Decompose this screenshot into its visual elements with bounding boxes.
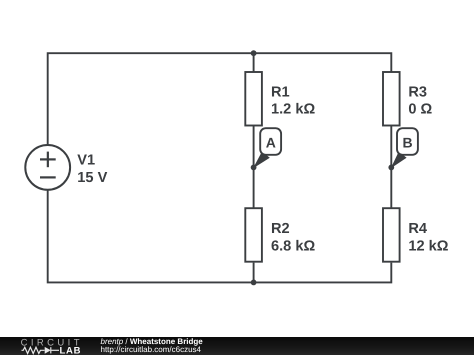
svg-text:LAB: LAB xyxy=(60,346,82,355)
svg-text:V1: V1 xyxy=(77,152,95,168)
svg-text:0 Ω: 0 Ω xyxy=(408,101,432,117)
svg-text:15 V: 15 V xyxy=(77,170,107,186)
svg-text:A: A xyxy=(266,134,276,150)
svg-text:R2: R2 xyxy=(271,221,290,237)
svg-text:R3: R3 xyxy=(408,84,427,100)
svg-text:R1: R1 xyxy=(271,84,290,100)
svg-text:1.2 kΩ: 1.2 kΩ xyxy=(271,101,315,117)
svg-text:B: B xyxy=(403,134,413,150)
svg-text:R4: R4 xyxy=(408,221,428,237)
svg-text:12 kΩ: 12 kΩ xyxy=(408,239,448,255)
svg-text:6.8 kΩ: 6.8 kΩ xyxy=(271,239,315,255)
svg-text:http://circuitlab.com/c6czus4: http://circuitlab.com/c6czus4 xyxy=(101,345,202,354)
